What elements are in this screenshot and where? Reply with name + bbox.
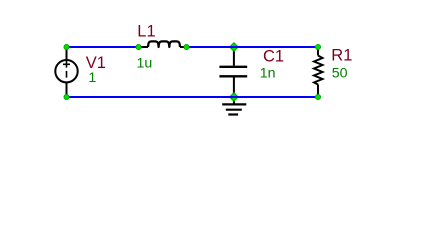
voltage source V1: [55, 47, 77, 97]
svg-text:1n: 1n: [260, 65, 276, 81]
svg-text:R1: R1: [331, 46, 352, 64]
svg-text:V1: V1: [86, 54, 106, 72]
junction node capacitor top: [230, 43, 239, 52]
inductor L1: [139, 41, 187, 47]
ground: [222, 97, 246, 115]
node at resistor top: [316, 45, 321, 50]
junction node ground: [230, 93, 239, 102]
svg-text:C1: C1: [263, 47, 284, 65]
node at source bottom: [64, 95, 69, 100]
svg-text:50: 50: [332, 65, 348, 81]
wire top-left: source to inductor: [67, 46, 139, 48]
resistor R1: [314, 47, 323, 97]
svg-text:1u: 1u: [137, 55, 153, 71]
node at inductor right: [184, 45, 189, 50]
svg-text:1: 1: [88, 70, 96, 86]
node at source top: [64, 45, 69, 50]
wire bottom: source to resistor: [67, 96, 319, 98]
node at resistor bottom: [316, 95, 321, 100]
capacitor C1: [219, 47, 247, 97]
wire top-right: inductor to resistor: [186, 46, 318, 48]
svg-text:L1: L1: [137, 22, 155, 40]
node at inductor left: [136, 45, 141, 50]
